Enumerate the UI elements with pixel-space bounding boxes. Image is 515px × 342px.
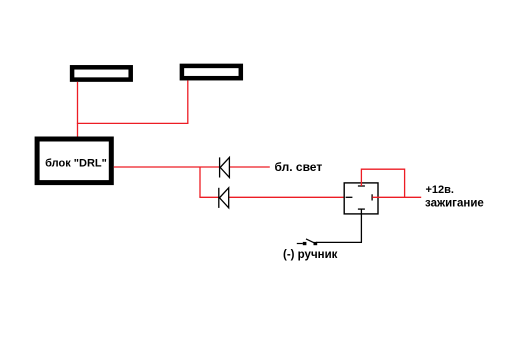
lamp 2 (right DRL lamp) [182,66,241,78]
switch S1 right contact [314,242,318,245]
wire diode D1 to label [229,166,269,168]
svg-text:блок "DRL": блок "DRL" [45,157,107,169]
switch S1 lever [306,239,315,243]
wire lamp1 to DRL block [77,82,79,137]
node junction drop [199,167,201,197]
wire relay coil loop (red) [361,169,404,197]
relay pin bottom tick [358,208,365,210]
relay U1 box [344,183,378,214]
wire junction to diode D2 [199,196,218,198]
wire relay bottom pin down (black) [360,209,362,242]
relay pin left tick [346,196,353,198]
svg-text:зажигание: зажигание [425,197,484,209]
relay pin top tick [358,185,365,187]
wire relay right pin to +12v [372,196,421,198]
switch S1 left stub [297,243,303,245]
wire switch to relay horizontal (black) [316,241,362,243]
svg-text:(-) ручник: (-) ручник [283,249,338,261]
block DRL [37,139,111,183]
svg-text:+12в.: +12в. [426,184,454,196]
wire DRL block to diode D1 [114,166,220,168]
diode D1 [220,157,230,177]
wire diode D2 to relay [229,196,344,198]
svg-text:бл. свет: бл. свет [275,160,323,174]
wire lamp connector horizontal [77,122,189,124]
relay pin right tick [371,194,373,200]
switch S1 left contact [303,242,307,245]
wire lamp2 drop [187,80,189,123]
lamp 1 (left DRL lamp) [72,67,131,79]
diode D2 [219,188,229,208]
